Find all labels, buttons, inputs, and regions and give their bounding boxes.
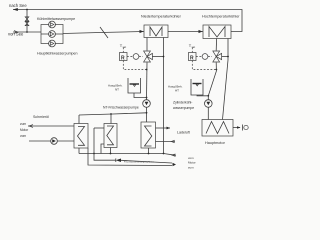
svg-text:set: set xyxy=(192,45,196,49)
svg-text:Schmieröl: Schmieröl xyxy=(33,115,49,119)
svg-text:HT: HT xyxy=(175,89,179,93)
svg-text:R: R xyxy=(121,55,125,61)
svg-text:Zylinderkühl-: Zylinderkühl- xyxy=(173,101,192,105)
svg-text:Hochtemperaturkühler: Hochtemperaturkühler xyxy=(202,15,240,19)
svg-text:Ladeluft: Ladeluft xyxy=(177,131,190,135)
svg-text:Hauptkühlwasserpumpen: Hauptkühlwasserpumpen xyxy=(37,52,78,56)
svg-text:Motor: Motor xyxy=(188,161,196,165)
svg-text:NT-Frischwasserpumpe: NT-Frischwasserpumpe xyxy=(103,106,139,110)
svg-text:vom: vom xyxy=(20,134,26,138)
svg-text:set: set xyxy=(123,45,127,49)
svg-text:vom: vom xyxy=(188,156,194,160)
svg-text:zum: zum xyxy=(20,122,26,126)
svg-text:NT: NT xyxy=(115,88,119,92)
svg-text:Kühlmittelwasserpumpe: Kühlmittelwasserpumpe xyxy=(37,17,75,21)
svg-text:nach See: nach See xyxy=(9,3,27,8)
svg-text:zum: zum xyxy=(188,165,194,169)
svg-text:Frischwasserversorgung Motor: Frischwasserversorgung Motor xyxy=(124,161,154,164)
svg-text:wasserpumpe: wasserpumpe xyxy=(173,106,194,110)
svg-text:R: R xyxy=(190,55,194,61)
svg-text:Niedertemperaturkühler: Niedertemperaturkühler xyxy=(141,15,182,19)
svg-text:Motor: Motor xyxy=(20,128,29,132)
svg-text:Hauptmotor: Hauptmotor xyxy=(205,141,226,145)
